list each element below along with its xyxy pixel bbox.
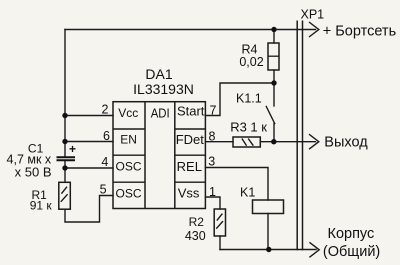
wire left rail upper xyxy=(64,30,66,157)
pin arrow to Выход xyxy=(309,134,319,149)
resistor R3 xyxy=(233,137,260,147)
pin arrow to + Бортсеть xyxy=(309,22,319,37)
wire pin 2 xyxy=(65,115,113,117)
wire pin 1 to R2 xyxy=(206,197,221,209)
node pin6 junction xyxy=(62,139,67,144)
svg-text:0,02: 0,02 xyxy=(239,55,263,69)
resistor R2 xyxy=(214,209,225,236)
wire pin 7 to node B xyxy=(206,83,275,116)
svg-text:EN: EN xyxy=(120,133,137,147)
wire bottom rail xyxy=(220,249,316,251)
svg-text:Выход: Выход xyxy=(324,134,368,150)
wire R4 top stub xyxy=(273,30,275,44)
wire pin 6 xyxy=(65,141,113,143)
relay coil K1 xyxy=(253,200,284,214)
node pin4 junction xyxy=(62,165,67,170)
wire pin 3 to K1 coil xyxy=(206,168,269,201)
svg-text:+: + xyxy=(69,142,76,156)
resistor R1 xyxy=(59,182,71,209)
svg-text:Корпус: Корпус xyxy=(328,226,375,242)
node pin2 junction xyxy=(62,113,67,118)
wire R1 bottom to pin 5 xyxy=(65,196,113,223)
svg-text:OSC: OSC xyxy=(115,186,141,200)
resistor R4 xyxy=(268,43,279,70)
svg-text:FDet: FDet xyxy=(176,132,205,147)
svg-text:XP1: XP1 xyxy=(301,7,325,21)
svg-text:x 50 В: x 50 В xyxy=(15,164,52,179)
IC DA1 box xyxy=(113,102,205,209)
wire pin 8 to R3 xyxy=(206,141,234,143)
svg-text:R2: R2 xyxy=(189,215,205,229)
capacitor C1 xyxy=(57,157,76,160)
wire left rail lower (C1 bottom to R1 top) xyxy=(64,161,66,183)
svg-text:7: 7 xyxy=(210,104,217,118)
svg-text:+ Бортсеть: + Бортсеть xyxy=(323,24,396,40)
svg-text:(Общий): (Общий) xyxy=(323,244,380,260)
svg-text:Start: Start xyxy=(177,103,205,118)
svg-text:91 к: 91 к xyxy=(30,199,53,213)
node junction dots xyxy=(62,27,276,252)
svg-text:R3 1 к: R3 1 к xyxy=(230,120,267,135)
svg-text:ADI: ADI xyxy=(151,105,170,120)
contact K1.1 xyxy=(273,83,275,106)
svg-text:Vss: Vss xyxy=(178,186,200,201)
pin arrow to Корпус xyxy=(309,242,319,257)
wire top rail xyxy=(65,29,316,31)
svg-text:K1: K1 xyxy=(240,185,255,199)
wire R3 to output arrow xyxy=(260,141,315,143)
svg-text:REL: REL xyxy=(177,159,202,174)
svg-text:DA1: DA1 xyxy=(145,66,172,82)
node output junction xyxy=(271,139,276,144)
svg-text:OSC: OSC xyxy=(115,160,141,174)
svg-text:Vcc: Vcc xyxy=(118,106,138,120)
svg-text:3: 3 xyxy=(208,154,215,168)
svg-text:5: 5 xyxy=(100,183,107,197)
svg-text:1: 1 xyxy=(209,185,216,199)
node R4 top junction xyxy=(271,27,276,32)
wire K1 coil bottom xyxy=(267,214,269,250)
connector XP1 double lines xyxy=(297,21,302,251)
wire pin 4 xyxy=(65,167,113,169)
svg-text:2: 2 xyxy=(102,103,109,117)
svg-text:4: 4 xyxy=(101,155,108,169)
node ground junction xyxy=(266,247,271,252)
svg-text:IL33193N: IL33193N xyxy=(133,81,194,97)
svg-text:6: 6 xyxy=(103,129,110,143)
svg-text:K1.1: K1.1 xyxy=(236,91,262,105)
wire R2 bottom stub xyxy=(219,236,221,250)
svg-text:8: 8 xyxy=(209,129,216,143)
svg-text:430: 430 xyxy=(185,229,206,243)
wire R4 bottom stub xyxy=(273,70,275,83)
node R4 bottom junction xyxy=(271,80,276,85)
